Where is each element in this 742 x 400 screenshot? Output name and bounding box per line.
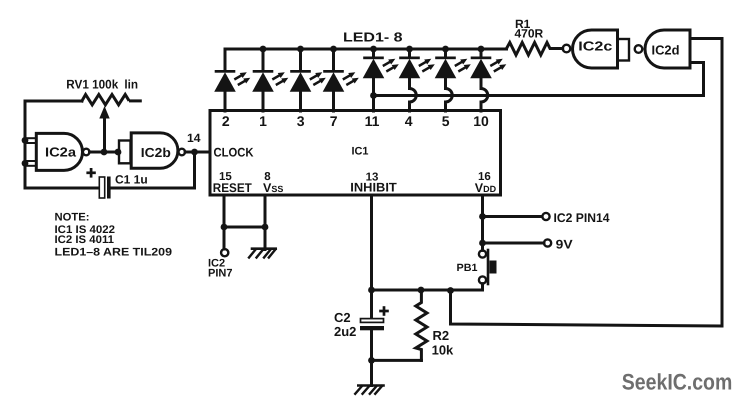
svg-text:7: 7 [330, 113, 338, 129]
svg-text:10k: 10k [432, 342, 454, 357]
svg-text:2u2: 2u2 [334, 324, 356, 339]
svg-text:3: 3 [297, 113, 305, 129]
svg-text:IC2b: IC2b [141, 145, 171, 160]
svg-text:IC2d: IC2d [652, 43, 680, 58]
svg-text:NOTE:: NOTE: [55, 211, 90, 223]
svg-text:VDD: VDD [475, 181, 497, 195]
svg-text:C2: C2 [334, 310, 351, 325]
svg-text:R2: R2 [433, 328, 450, 343]
svg-text:PIN7: PIN7 [208, 268, 232, 280]
svg-text:RV1 100k lin: RV1 100k lin [66, 78, 138, 92]
svg-text:9V: 9V [556, 237, 574, 251]
svg-text:LED1- 8: LED1- 8 [343, 30, 403, 45]
svg-text:CLOCK: CLOCK [214, 145, 254, 159]
svg-text:10: 10 [473, 113, 489, 129]
svg-text:5: 5 [442, 113, 450, 129]
svg-text:INHIBIT: INHIBIT [350, 180, 397, 194]
svg-text:2: 2 [222, 113, 230, 129]
svg-text:IC2c: IC2c [578, 39, 612, 54]
svg-text:4: 4 [405, 113, 413, 129]
svg-text:VSS: VSS [263, 181, 283, 195]
svg-text:14: 14 [187, 131, 201, 145]
svg-text:IC1: IC1 [352, 146, 369, 158]
svg-text:PB1: PB1 [457, 262, 478, 274]
svg-text:IC2 IS 4011: IC2 IS 4011 [55, 234, 115, 246]
svg-text:1: 1 [259, 113, 267, 129]
svg-text:11: 11 [365, 113, 380, 129]
svg-text:470R: 470R [515, 27, 544, 41]
svg-text:IC2a: IC2a [45, 145, 77, 160]
svg-text:SeekIC.com: SeekIC.com [622, 369, 733, 394]
svg-text:IC2 PIN14: IC2 PIN14 [554, 211, 610, 225]
svg-text:LED1–8 ARE TIL209: LED1–8 ARE TIL209 [55, 246, 173, 258]
svg-text:RESET: RESET [213, 181, 252, 195]
svg-text:C1 1u: C1 1u [115, 173, 148, 187]
